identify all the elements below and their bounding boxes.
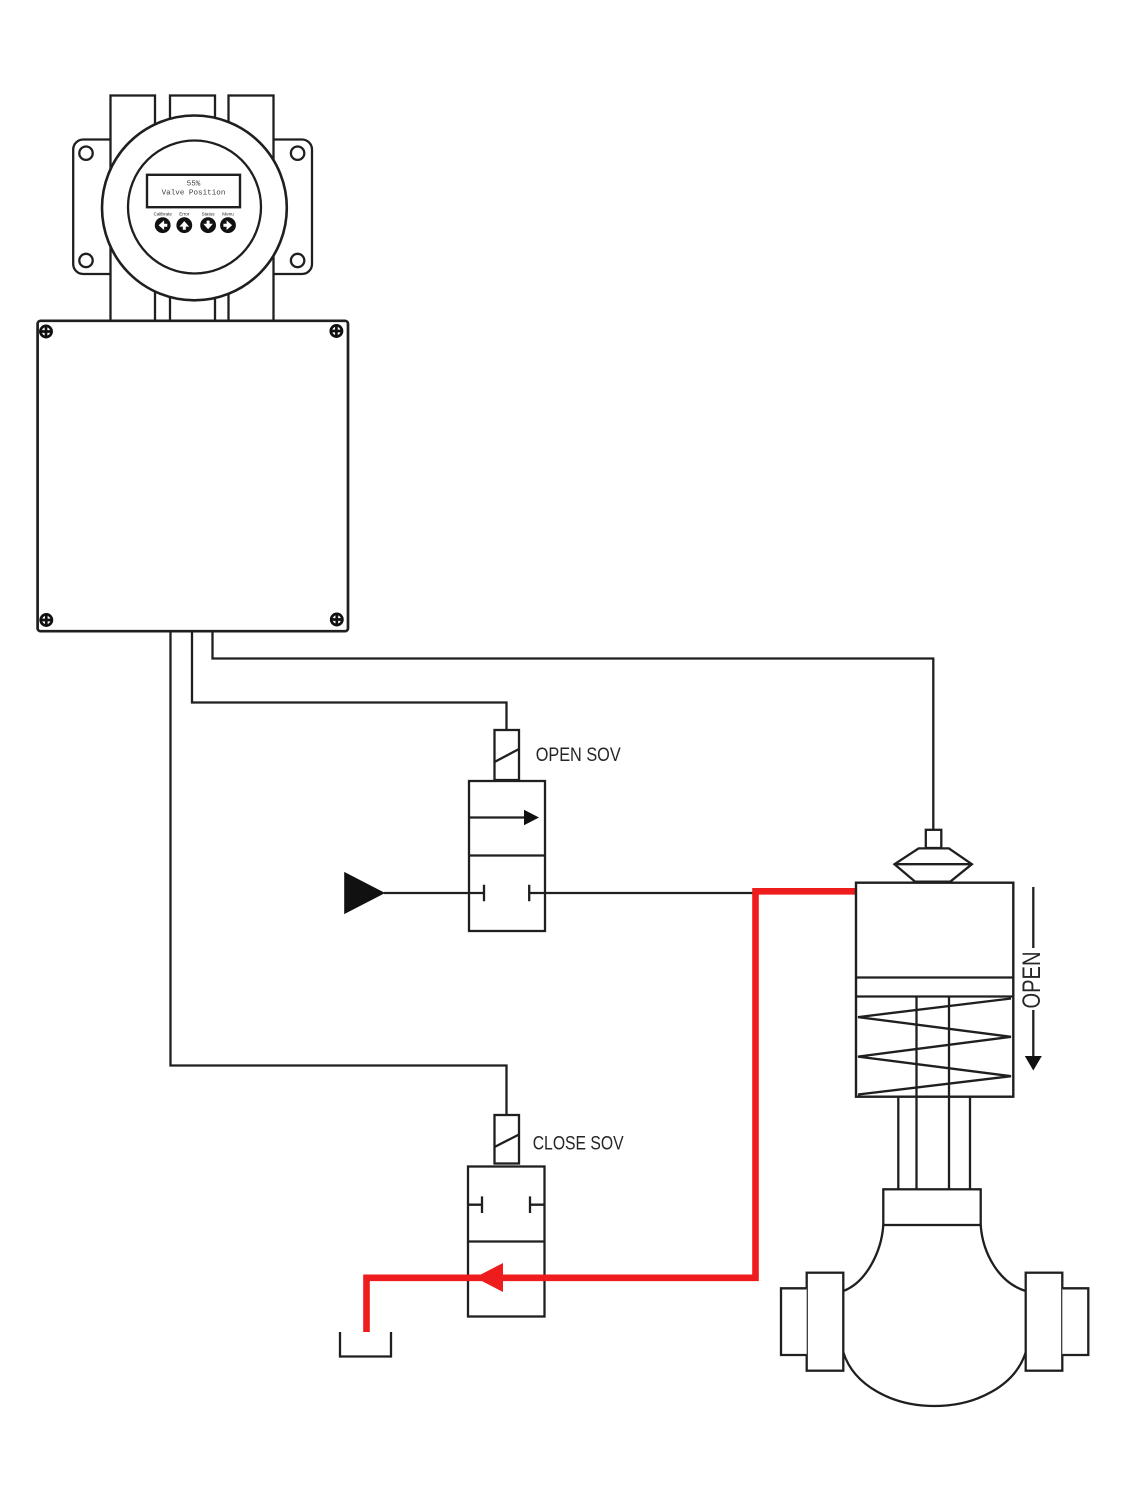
piston plate lower line [856,995,1013,997]
svg-text:Status: Status [202,211,216,216]
conduit tab left [111,96,156,322]
button right-arrow [220,217,236,233]
svg-text:OPEN SOV: OPEN SOV [536,745,621,766]
positioner outer housing circle [102,115,287,300]
wire box to CLOSE SOV coil [171,631,507,1115]
valve body bottom bowl [843,1352,1025,1406]
conduit tab middle [170,96,215,322]
OPEN SOV flow arrow [469,810,539,826]
svg-text:CLOSE SOV: CLOSE SOV [533,1134,624,1155]
button left-arrow [155,217,171,233]
yoke legs [898,1097,970,1190]
OPEN SOV solenoid coil [495,730,520,780]
OPEN annotation lower line with arrowhead [1025,1010,1042,1071]
CLOSE SOV blocked ports [468,1196,545,1213]
svg-text:Valve Position: Valve Position [162,190,226,198]
wire box to actuator stem [213,631,934,831]
plate hole top-right [291,147,304,160]
OPEN SOV blocked ports [469,885,545,902]
screw bottom-left [40,613,53,626]
svg-text:Menu: Menu [222,211,234,216]
svg-text:OPEN: OPEN [1018,952,1046,1009]
left pipe stub [781,1288,807,1355]
red flow arrowhead [475,1263,503,1292]
svg-text:Calibrate: Calibrate [154,211,173,216]
piston plate upper line [856,976,1013,978]
LCD display [147,175,240,207]
conduit tab right [229,96,274,322]
air supply triangle [345,873,469,914]
terminal enclosure box [38,321,348,631]
red exhaust path actuator to vent [367,891,857,1332]
actuator cylinder [856,883,1013,1097]
vent symbol [340,1332,391,1357]
actuator stem lines [917,997,950,1190]
bonnet flange [883,1189,980,1225]
spring zigzag [858,999,1011,1095]
bevel nut midline [895,863,972,865]
supply line to OPEN SOV [384,892,469,894]
svg-text:55%: 55% [187,180,201,188]
plate hole bottom-right [291,254,304,267]
screw bottom-right [330,613,343,626]
svg-text:Error: Error [179,211,190,216]
actuator stem connector [926,830,942,848]
CLOSE SOV valve body [468,1167,545,1317]
plate hole top-left [79,147,92,160]
valve body neck curves [843,1225,883,1291]
button up-arrow [176,217,192,233]
button down-arrow [200,217,216,233]
left flange [807,1273,844,1371]
line OPEN SOV to actuator branch [545,892,755,894]
CLOSE SOV solenoid coil [495,1115,520,1164]
wire box to OPEN SOV coil [192,631,507,730]
screw top-right [330,324,343,337]
positioner inner face circle [128,141,261,274]
actuator stem bevel nut hexagon [895,848,972,881]
plate hole bottom-left [79,254,92,267]
right pipe stub [1062,1288,1088,1355]
positioner mounting plate [73,140,312,275]
OPEN SOV valve body [469,781,545,931]
screw top-left [39,325,52,338]
OPEN annotation upper line [1032,887,1034,948]
right flange [1026,1273,1063,1371]
